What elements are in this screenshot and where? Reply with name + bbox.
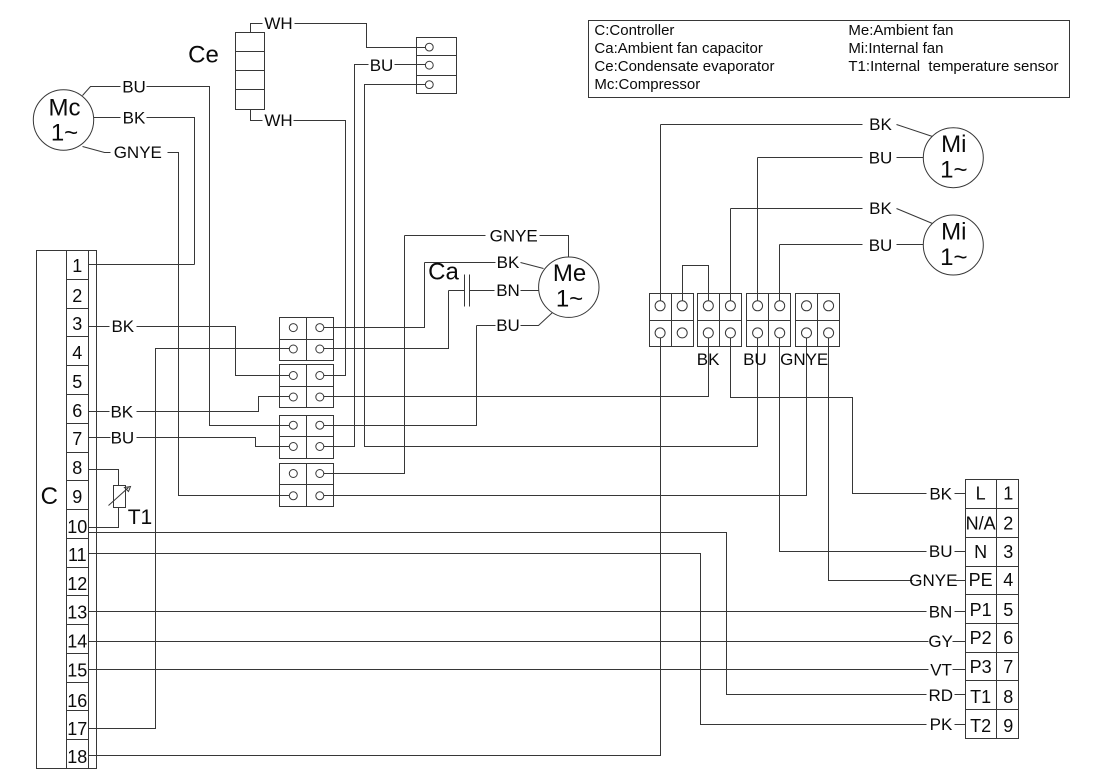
wire BU C row 7 to block3 (89, 437, 111, 439)
wire BK C row 3 to block2 (89, 326, 110, 328)
svg-text:BU: BU (869, 149, 893, 168)
svg-text:T1: T1 (128, 506, 153, 529)
connector block 4 (280, 464, 334, 507)
svg-text:BU: BU (929, 542, 953, 561)
svg-text:1~: 1~ (556, 285, 583, 312)
svg-text:2: 2 (1003, 513, 1013, 533)
svg-text:14: 14 (67, 632, 87, 652)
connector block C (747, 294, 791, 347)
svg-text:Mc: Mc (49, 94, 81, 121)
wire block D to block4 (GNYE) (320, 333, 807, 496)
svg-text:16: 16 (67, 691, 87, 711)
wire capacitor to block1 (320, 291, 465, 349)
internal fan Mi lower (923, 215, 983, 275)
svg-text:1~: 1~ (940, 244, 967, 271)
svg-text:BU: BU (869, 236, 893, 255)
svg-text:BK: BK (497, 253, 520, 272)
wire WH top of Ce (251, 24, 263, 33)
wire C row 17 to block1 (89, 349, 294, 729)
svg-text:BN: BN (496, 281, 520, 300)
wire GNYE from Mc to block4 (83, 147, 111, 153)
wire BU from Mi lower to block C (780, 244, 863, 246)
wire C row 14 to terminal P2 (GY) (89, 641, 929, 643)
svg-text:BN: BN (929, 603, 953, 622)
svg-text:9: 9 (1003, 716, 1013, 736)
3-pole connector top right (417, 38, 457, 94)
svg-text:8: 8 (72, 458, 82, 478)
svg-text:C:Controller: C:Controller (594, 22, 674, 39)
svg-text:N/A: N/A (966, 513, 996, 533)
svg-text:WH: WH (264, 111, 292, 130)
svg-text:GNYE: GNYE (780, 350, 828, 369)
svg-text:RD: RD (929, 686, 954, 705)
wire C row 15 to terminal P3 (VT) (89, 669, 929, 671)
svg-text:13: 13 (67, 603, 87, 623)
connector block A (650, 294, 694, 347)
svg-text:GNYE: GNYE (909, 571, 957, 590)
wire BK from Mi upper to block A (661, 124, 863, 126)
svg-text:5: 5 (1003, 600, 1013, 620)
legend box (589, 21, 1070, 98)
wire GNYE from Me to block4 (405, 235, 486, 237)
svg-text:BK: BK (869, 199, 892, 218)
svg-text:7: 7 (72, 429, 82, 449)
svg-text:T2: T2 (970, 716, 991, 736)
svg-text:2: 2 (72, 286, 82, 306)
svg-text:Ce:Condensate evaporator: Ce:Condensate evaporator (594, 58, 774, 75)
svg-text:4: 4 (1003, 570, 1013, 590)
svg-text:BK: BK (869, 115, 892, 134)
wire block C to terminal N (BU) (780, 333, 927, 552)
svg-text:L: L (976, 484, 986, 504)
connector block 2 (280, 365, 334, 408)
wire BN from capacitor to Me (470, 290, 495, 292)
svg-text:Mc:Compressor: Mc:Compressor (594, 76, 700, 93)
svg-text:GNYE: GNYE (114, 143, 162, 162)
svg-text:BK: BK (123, 108, 146, 127)
svg-text:6: 6 (1003, 628, 1013, 648)
wire BU from Mc to block3 (83, 87, 121, 96)
svg-text:1: 1 (72, 256, 82, 276)
svg-text:1~: 1~ (940, 157, 967, 184)
svg-text:Mi: Mi (941, 131, 966, 158)
wire C row 8 to T1 (89, 470, 119, 486)
svg-text:12: 12 (67, 574, 87, 594)
svg-text:Ca: Ca (428, 259, 459, 286)
connector block D (796, 294, 840, 347)
compressor Mc (33, 90, 93, 150)
connector block B (698, 294, 742, 347)
svg-text:Me: Me (553, 260, 586, 287)
svg-text:17: 17 (67, 719, 87, 739)
wire block D to terminal PE (GNYE) (829, 333, 913, 581)
wire BU from Me to block3 (477, 325, 496, 327)
svg-text:Ce: Ce (188, 42, 219, 69)
svg-text:3: 3 (1003, 542, 1013, 562)
svg-text:BU: BU (743, 350, 767, 369)
svg-text:PK: PK (930, 715, 953, 734)
svg-text:T1: T1 (970, 687, 991, 707)
svg-text:BU: BU (496, 316, 520, 335)
svg-text:18: 18 (67, 747, 87, 767)
svg-text:9: 9 (72, 487, 82, 507)
svg-text:4: 4 (72, 343, 82, 363)
ambient fan Me (539, 257, 599, 317)
wire WH bottom of Ce (251, 110, 263, 121)
wire C row 10 to terminal T1 (RD) (89, 533, 927, 695)
svg-text:Mi:Internal fan: Mi:Internal fan (848, 40, 943, 57)
connector block 1 (280, 318, 334, 361)
wire BK from Me to block1 (425, 262, 496, 264)
svg-text:C: C (41, 483, 58, 510)
svg-text:PE: PE (969, 570, 993, 590)
condensate evaporator Ce (236, 33, 265, 110)
wire T1 to C row 10 (89, 508, 119, 528)
svg-text:Ca:Ambient fan capacitor: Ca:Ambient fan capacitor (594, 40, 762, 57)
svg-text:T1:Internal temperature senso: T1:Internal temperature sensor (848, 58, 1058, 75)
wire top connector bottom pin to block C (365, 85, 758, 447)
svg-text:N: N (974, 542, 987, 562)
svg-text:P1: P1 (970, 600, 992, 620)
svg-text:BK: BK (697, 350, 720, 369)
svg-text:1: 1 (1003, 484, 1013, 504)
svg-text:WH: WH (264, 14, 292, 33)
wire BU from Mi upper to block C (758, 157, 863, 159)
svg-text:BU: BU (111, 429, 135, 448)
svg-text:6: 6 (72, 401, 82, 421)
svg-text:Me:Ambient fan: Me:Ambient fan (848, 22, 953, 39)
svg-text:7: 7 (1003, 657, 1013, 677)
wire BK from Mc to C row 1 (94, 117, 121, 119)
svg-text:1~: 1~ (51, 120, 78, 147)
capacitor Ca (465, 275, 470, 307)
svg-text:15: 15 (67, 660, 87, 680)
controller C terminal strip (37, 251, 97, 769)
svg-text:3: 3 (72, 314, 82, 334)
svg-text:P3: P3 (970, 657, 992, 677)
svg-text:BU: BU (370, 56, 394, 75)
connector block 3 (280, 416, 334, 459)
wire BK from Mi lower to block B (731, 208, 863, 210)
wire C row 18 to block A (89, 333, 661, 756)
svg-text:BK: BK (110, 402, 133, 421)
svg-text:Mi: Mi (941, 219, 966, 246)
wire block B to terminal L (BK) (731, 333, 927, 494)
svg-text:GNYE: GNYE (490, 227, 538, 246)
svg-text:10: 10 (67, 517, 87, 537)
jumper block A to block B (683, 266, 709, 306)
svg-text:5: 5 (72, 372, 82, 392)
svg-text:8: 8 (1003, 687, 1013, 707)
svg-text:P2: P2 (970, 628, 992, 648)
wire C row 13 to terminal P1 (BN) (89, 611, 927, 613)
wire BU to top connector middle pin (320, 65, 369, 447)
svg-text:VT: VT (930, 661, 952, 680)
wire BK C row 6 to block2 (89, 411, 110, 413)
wire C row 11 to terminal T2 (PK) (89, 554, 927, 725)
svg-text:BU: BU (122, 77, 146, 96)
svg-text:GY: GY (928, 632, 953, 651)
svg-text:BK: BK (111, 317, 134, 336)
svg-text:BK: BK (929, 485, 952, 504)
temperature sensor T1 (109, 486, 131, 508)
svg-text:11: 11 (68, 545, 87, 565)
internal fan Mi upper (923, 128, 983, 188)
wire block2 to block B (320, 333, 709, 397)
right supply terminal strip (966, 480, 1019, 739)
